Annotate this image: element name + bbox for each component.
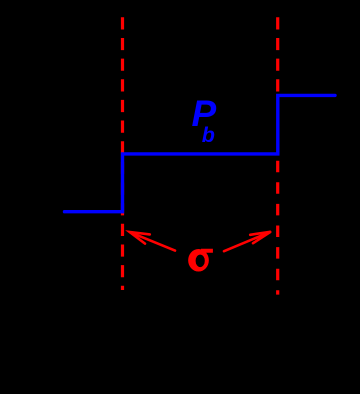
left threshold dashed line xyxy=(121,17,124,290)
arrow right head xyxy=(250,232,270,243)
right threshold dashed line (upper part) xyxy=(276,17,279,94)
arrow right shaft xyxy=(224,232,270,251)
svg-text:b: b xyxy=(202,123,215,147)
blue step function curve xyxy=(65,95,336,211)
label sigma (bowl ring + top bar) xyxy=(188,249,213,272)
right threshold dashed line (lower part) xyxy=(276,161,279,295)
arrow left head xyxy=(130,232,150,244)
arrow left shaft xyxy=(130,232,175,250)
